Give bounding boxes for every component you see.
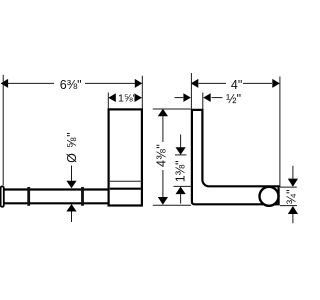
collar tick 2 [81,187,84,206]
dia arrow upper [71,166,73,182]
ext line plate-right up [202,93,204,109]
plate thin line [110,180,141,182]
svg-text:4": 4" [231,78,242,92]
ext line left [2,75,4,186]
ext line arm-top extended left [174,185,191,187]
dim 3/4 bottom arrow [288,206,298,214]
bar top edge [2,188,109,190]
ext line bottom [153,204,191,206]
svg-text:4⅜": 4⅜" [155,144,169,167]
dim 1-5/8 arrowheads [108,93,116,102]
dim 6-3/8 line [7,82,136,84]
ext line top (plate top extended) [153,108,191,110]
ext line right long [279,77,281,188]
dim 6-3/8 arrowheads [1,79,9,88]
bar bottom edge [2,202,109,204]
knob circle [260,187,279,206]
dim 4 line [199,82,273,84]
end cap [1,186,4,206]
svg-text:1⅝": 1⅝" [118,92,137,104]
ext line plate-left up [190,73,192,109]
svg-text:1⅜": 1⅜" [173,160,187,182]
dim 1-3/8 bottom arrow [176,187,186,195]
L profile outline [192,110,279,204]
dim 1-3/8 top arrow [180,135,182,148]
ext line right [141,76,143,109]
svg-text:Ø ⅝": Ø ⅝" [65,132,79,163]
svg-text:¾": ¾" [284,189,298,204]
dim 4-3/8 top arrow [158,109,168,117]
ext line plate left top [107,93,109,109]
tick line at 155 [175,154,186,156]
dim 4-3/8 bottom arrow [162,170,164,197]
dim 1/2 left arrow [175,97,184,99]
svg-text:½": ½" [226,92,241,106]
dim 3/4 ext bottom [280,205,297,207]
svg-text:6⅜": 6⅜" [60,78,82,92]
dia arrow lower [66,204,76,212]
dim 3/4 top arrow [292,166,294,179]
dim 4 arrowheads [191,79,199,88]
dim 1/2 right arrow [203,93,211,102]
collar tick 1 [27,187,30,206]
plate thick line [110,188,141,190]
dim 3/4 ext top [280,186,297,188]
wall plate (front view) [109,109,142,205]
